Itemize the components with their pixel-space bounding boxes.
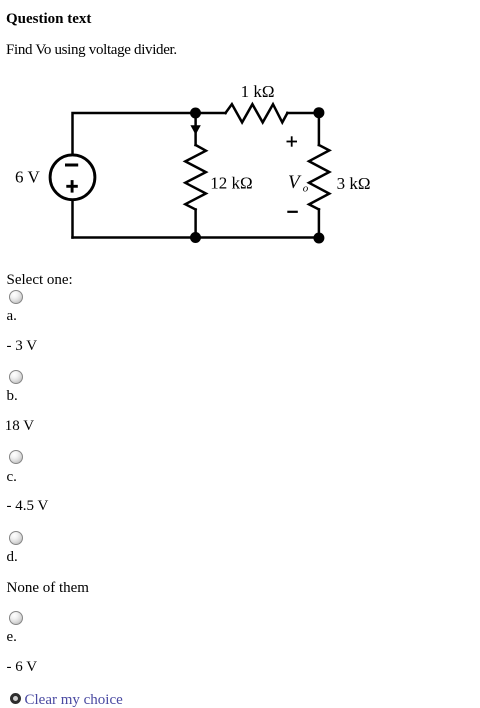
option a: [9, 290, 23, 304]
option e: [9, 611, 23, 625]
option d: [9, 531, 23, 545]
wire: source bottom lead: [71, 200, 74, 238]
resistor R2 12 kOhm (vertical zigzag): [185, 145, 206, 210]
wire: node B down to R3: [318, 113, 321, 145]
voltage source (circle): [50, 155, 95, 200]
option b: [9, 370, 23, 384]
current arrow head into R2 branch: [190, 125, 200, 135]
clear my choice icon: [10, 693, 22, 705]
svg-text:12 kΩ: 12 kΩ: [210, 173, 252, 192]
wire: R3 bottom lead: [318, 209, 321, 237]
wire: node A down to R2 (current arrow shaft): [194, 113, 197, 145]
junction node B (top right): [313, 107, 324, 118]
wire: top rail from source to R1 left lead: [73, 113, 226, 155]
svg-text:3 kΩ: 3 kΩ: [337, 174, 371, 193]
question line: [6, 43, 177, 58]
junction node D (bottom right): [313, 233, 324, 244]
svg-text:6 V: 6 V: [15, 168, 40, 187]
label Vo plus polarity: [287, 136, 298, 146]
junction node A (top): [190, 108, 201, 119]
wire: R1 right lead to node B: [287, 112, 319, 115]
option c: [9, 450, 23, 464]
svg-text:1 kΩ: 1 kΩ: [241, 82, 275, 101]
label Vo minus polarity: [287, 211, 298, 213]
heading "Question text": [6, 12, 91, 27]
source minus mark: [65, 164, 78, 167]
"Select one:": [7, 273, 73, 288]
svg-text:V: V: [288, 172, 302, 193]
source plus mark: [66, 180, 78, 193]
wire: bottom rail: [73, 236, 319, 239]
circuit schematic: [0, 0, 480, 262]
junction node C (bottom mid): [190, 232, 201, 243]
resistor R3 3 kOhm (vertical zigzag): [309, 145, 329, 209]
svg-text:o: o: [303, 183, 309, 195]
clear my choice link: [25, 693, 123, 708]
wire: R2 bottom lead: [194, 210, 197, 238]
resistor R1 1 kOhm (horizontal zigzag): [226, 104, 288, 122]
